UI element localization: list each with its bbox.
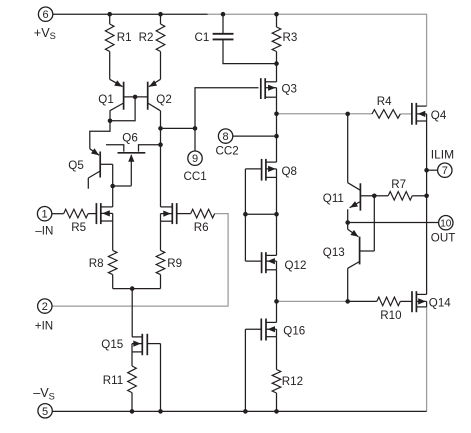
label R10 (380, 309, 401, 322)
svg-text:Q12: Q12 (285, 259, 307, 272)
label CC2 (216, 145, 239, 158)
label R9 (167, 257, 182, 270)
resistor R10 (348, 297, 412, 306)
junction R3-C1 (274, 61, 279, 66)
junction Q16 gate at rail (243, 409, 248, 414)
label +IN (35, 319, 53, 332)
junction Q13 collector node (345, 299, 350, 304)
label R11 (103, 374, 123, 387)
label Q3 (282, 82, 297, 95)
junction CC2 node (274, 134, 279, 139)
wire Q8 source to Q12 drain (276, 177, 278, 255)
resistor R6 (177, 209, 215, 218)
label Q14 (429, 296, 451, 309)
wire Q6 source to node A (113, 185, 132, 187)
wire Q12 gate (245, 260, 261, 262)
wire Q14 source to -Vs rail (gray) (426, 307, 428, 412)
wire left FET source to R8 (112, 221, 114, 250)
label ILIM (431, 147, 454, 161)
wire Q1 collector node to Q5 emitter (90, 111, 110, 149)
junction R3 at rail (274, 12, 279, 17)
label Q6 (122, 131, 137, 144)
svg-text:Q13: Q13 (323, 246, 345, 259)
svg-text:CC2: CC2 (216, 145, 239, 158)
junction Q16 drain / R10 node (274, 299, 279, 304)
junction Q3 source / R4 line (274, 112, 279, 117)
wire Q2 collector to CC1 node (160, 111, 162, 207)
label Q11 (323, 192, 344, 205)
junction CC1 (193, 126, 198, 131)
input mosfet (-IN side) (96, 203, 112, 224)
svg-text:7: 7 (442, 165, 448, 177)
svg-text:Q1: Q1 (98, 93, 113, 106)
transistor Q1 (110, 79, 124, 111)
resistor R9 (156, 250, 165, 288)
pin 1 (-IN) (37, 207, 51, 221)
svg-text:S: S (50, 31, 56, 41)
pin 10 (OUT) (439, 216, 453, 230)
svg-text:+IN: +IN (35, 319, 53, 332)
svg-text:R9: R9 (167, 257, 182, 270)
svg-text:CC1: CC1 (184, 170, 207, 183)
svg-text:Q8: Q8 (282, 165, 297, 178)
label Q12 (285, 259, 307, 272)
label -Vs (33, 386, 55, 401)
wire Q12 source to Q16 drain (276, 270, 278, 323)
junction C1 at rail (221, 12, 226, 17)
wire +IN net from pin 2 to R6 (gray) (52, 214, 228, 307)
junction Q1 collector node (108, 119, 113, 124)
wire ILIM column to Q14 drain (426, 196, 428, 295)
wire to pin 7 (427, 169, 438, 171)
svg-text:Q14: Q14 (429, 296, 451, 309)
svg-text:R10: R10 (380, 309, 401, 322)
svg-text:R4: R4 (377, 95, 392, 108)
transistor Q2 (148, 79, 161, 111)
junction R8-R9 (130, 286, 135, 291)
svg-text:Q4: Q4 (431, 109, 447, 122)
resistor R4 (372, 110, 400, 119)
pin 9 (CC1) (188, 151, 202, 165)
label R8 (89, 257, 104, 270)
wire Q8-Q12 gate bias (245, 169, 276, 261)
resistor R7 (374, 192, 426, 201)
label Q4 (431, 109, 447, 122)
svg-text:5: 5 (42, 406, 48, 418)
wire left FET drain (112, 186, 114, 207)
wire OUT (348, 222, 439, 224)
label R5 (71, 221, 86, 234)
wire right FET source to R9 (160, 221, 162, 250)
junction R12 at rail (274, 409, 279, 414)
junction Q6 drain tap (158, 142, 163, 147)
wire CC1 to Q3 gate (161, 88, 259, 151)
svg-text:Q2: Q2 (156, 93, 171, 106)
label R3 (283, 31, 298, 44)
label -IN (35, 224, 53, 237)
svg-text:Q6: Q6 (122, 131, 137, 144)
resistor R8 (108, 250, 117, 288)
svg-text:1: 1 (42, 209, 48, 221)
mosfet Q4 (412, 103, 427, 125)
svg-text:Q16: Q16 (283, 324, 305, 337)
pin 6 (+Vs) (38, 7, 52, 21)
junction ILIM (424, 168, 429, 173)
junction CC1 tap (158, 126, 163, 131)
svg-text:R11: R11 (103, 374, 123, 387)
label Q15 (101, 338, 123, 351)
svg-text:R12: R12 (282, 375, 303, 388)
svg-text:R2: R2 (139, 31, 154, 44)
svg-text:–V: –V (33, 386, 49, 400)
label Q8 (282, 165, 297, 178)
transistor Q6 (106, 145, 161, 186)
wire +Vs rail gray extension to Q4 source (207, 14, 427, 106)
wire Q3 source to R4 (gray) (277, 113, 412, 115)
junction Q8-Q12 midpoint (274, 212, 279, 217)
label C1 (195, 31, 210, 44)
input mosfet (+IN side) (161, 203, 177, 224)
resistor R11 (128, 352, 137, 412)
wire base node to Q13 base (373, 196, 375, 251)
mosfet Q15 (132, 334, 147, 355)
svg-text:R6: R6 (194, 221, 209, 234)
resistor R3 (272, 14, 281, 63)
wire R8-R9 join (113, 289, 161, 337)
label Q16 (283, 324, 305, 337)
mosfet Q16 (261, 319, 276, 341)
mosfet Q14 (412, 291, 427, 312)
wire Q16 gate to -Vs (245, 329, 261, 411)
mosfet Q12 (262, 252, 277, 273)
label R4 (377, 95, 392, 108)
label R7 (391, 178, 406, 191)
wire Q13 base (360, 250, 375, 252)
wire Q8 gate (245, 168, 261, 170)
wire +Vs rail (53, 13, 208, 15)
pin 7 (ILIM) (438, 163, 452, 177)
wire Q4 drain to ILIM (426, 121, 428, 170)
svg-text:R5: R5 (71, 221, 86, 234)
label R6 (194, 221, 209, 234)
mosfet Q8 (262, 159, 277, 181)
junction R2 at rail (158, 12, 163, 17)
junction OUT node (345, 220, 350, 225)
svg-text:S: S (49, 392, 55, 402)
resistor R1 (105, 14, 114, 79)
svg-text:Q3: Q3 (282, 82, 297, 95)
label CC1 (184, 170, 207, 183)
svg-text:10: 10 (440, 218, 452, 229)
wire ILIM to R7 (426, 170, 428, 196)
pin 5 (-Vs) (38, 404, 52, 418)
svg-text:R8: R8 (89, 257, 104, 270)
label Q13 (323, 246, 345, 259)
pin 8 (CC2) (218, 129, 232, 143)
junction R1 at rail (107, 12, 112, 17)
wire R4 tap to Q11 collector (347, 114, 349, 183)
transistor Q11 (348, 183, 361, 223)
svg-text:–IN: –IN (35, 224, 53, 237)
svg-text:9: 9 (192, 153, 198, 165)
resistor R5 (64, 209, 97, 218)
svg-text:2: 2 (42, 301, 48, 313)
wire CC2 to main column (233, 135, 277, 137)
label OUT (431, 232, 455, 245)
junction gate bias node (243, 212, 248, 217)
junction R4 tap (345, 112, 350, 117)
label Q2 (156, 93, 171, 106)
label R1 (117, 31, 132, 44)
svg-text:Q5: Q5 (68, 159, 83, 172)
junction R11 at rail (130, 409, 135, 414)
junction R7 left / base node (372, 194, 377, 199)
junction node A (110, 184, 115, 189)
junction R7 right (424, 194, 429, 199)
svg-text:Q11: Q11 (323, 192, 344, 205)
mosfet Q3 (261, 78, 277, 99)
junction Q1-Q2 base (133, 95, 138, 100)
wire Q3 drain (276, 64, 278, 82)
label R12 (282, 375, 303, 388)
svg-text:OUT: OUT (431, 232, 455, 245)
label Q1 (98, 93, 113, 106)
wire pin1 to R5 (52, 213, 64, 215)
wire -Vs rail (52, 410, 426, 412)
wire Q11 base (360, 195, 374, 197)
label R2 (139, 31, 154, 44)
wire Q15 gate to -Vs (147, 344, 160, 412)
wire Q5 base (100, 164, 113, 186)
label +Vs (34, 26, 56, 41)
capacitor C1 (213, 14, 277, 63)
label Q5 (68, 159, 83, 172)
transistor Q5 (88, 148, 100, 188)
svg-text:ILIM: ILIM (431, 147, 454, 161)
svg-text:C1: C1 (195, 31, 210, 44)
svg-text:6: 6 (43, 9, 49, 21)
transistor Q13 (348, 223, 360, 302)
svg-text:Q15: Q15 (101, 338, 123, 351)
svg-text:+V: +V (34, 26, 50, 40)
svg-text:8: 8 (223, 131, 229, 143)
resistor R2 (156, 14, 165, 79)
wire Q1-Q2 base tie (110, 97, 148, 121)
wire Q16 source to Q13 collector node (gray) (277, 300, 348, 302)
svg-text:R1: R1 (117, 31, 132, 44)
svg-text:R3: R3 (283, 31, 298, 44)
wire Q3 source to Q8 drain (276, 97, 278, 162)
svg-text:R7: R7 (391, 178, 406, 191)
junction Q15 gate at rail (158, 409, 163, 414)
resistor R12 (272, 337, 281, 412)
pin 2 (+IN) (38, 299, 52, 313)
